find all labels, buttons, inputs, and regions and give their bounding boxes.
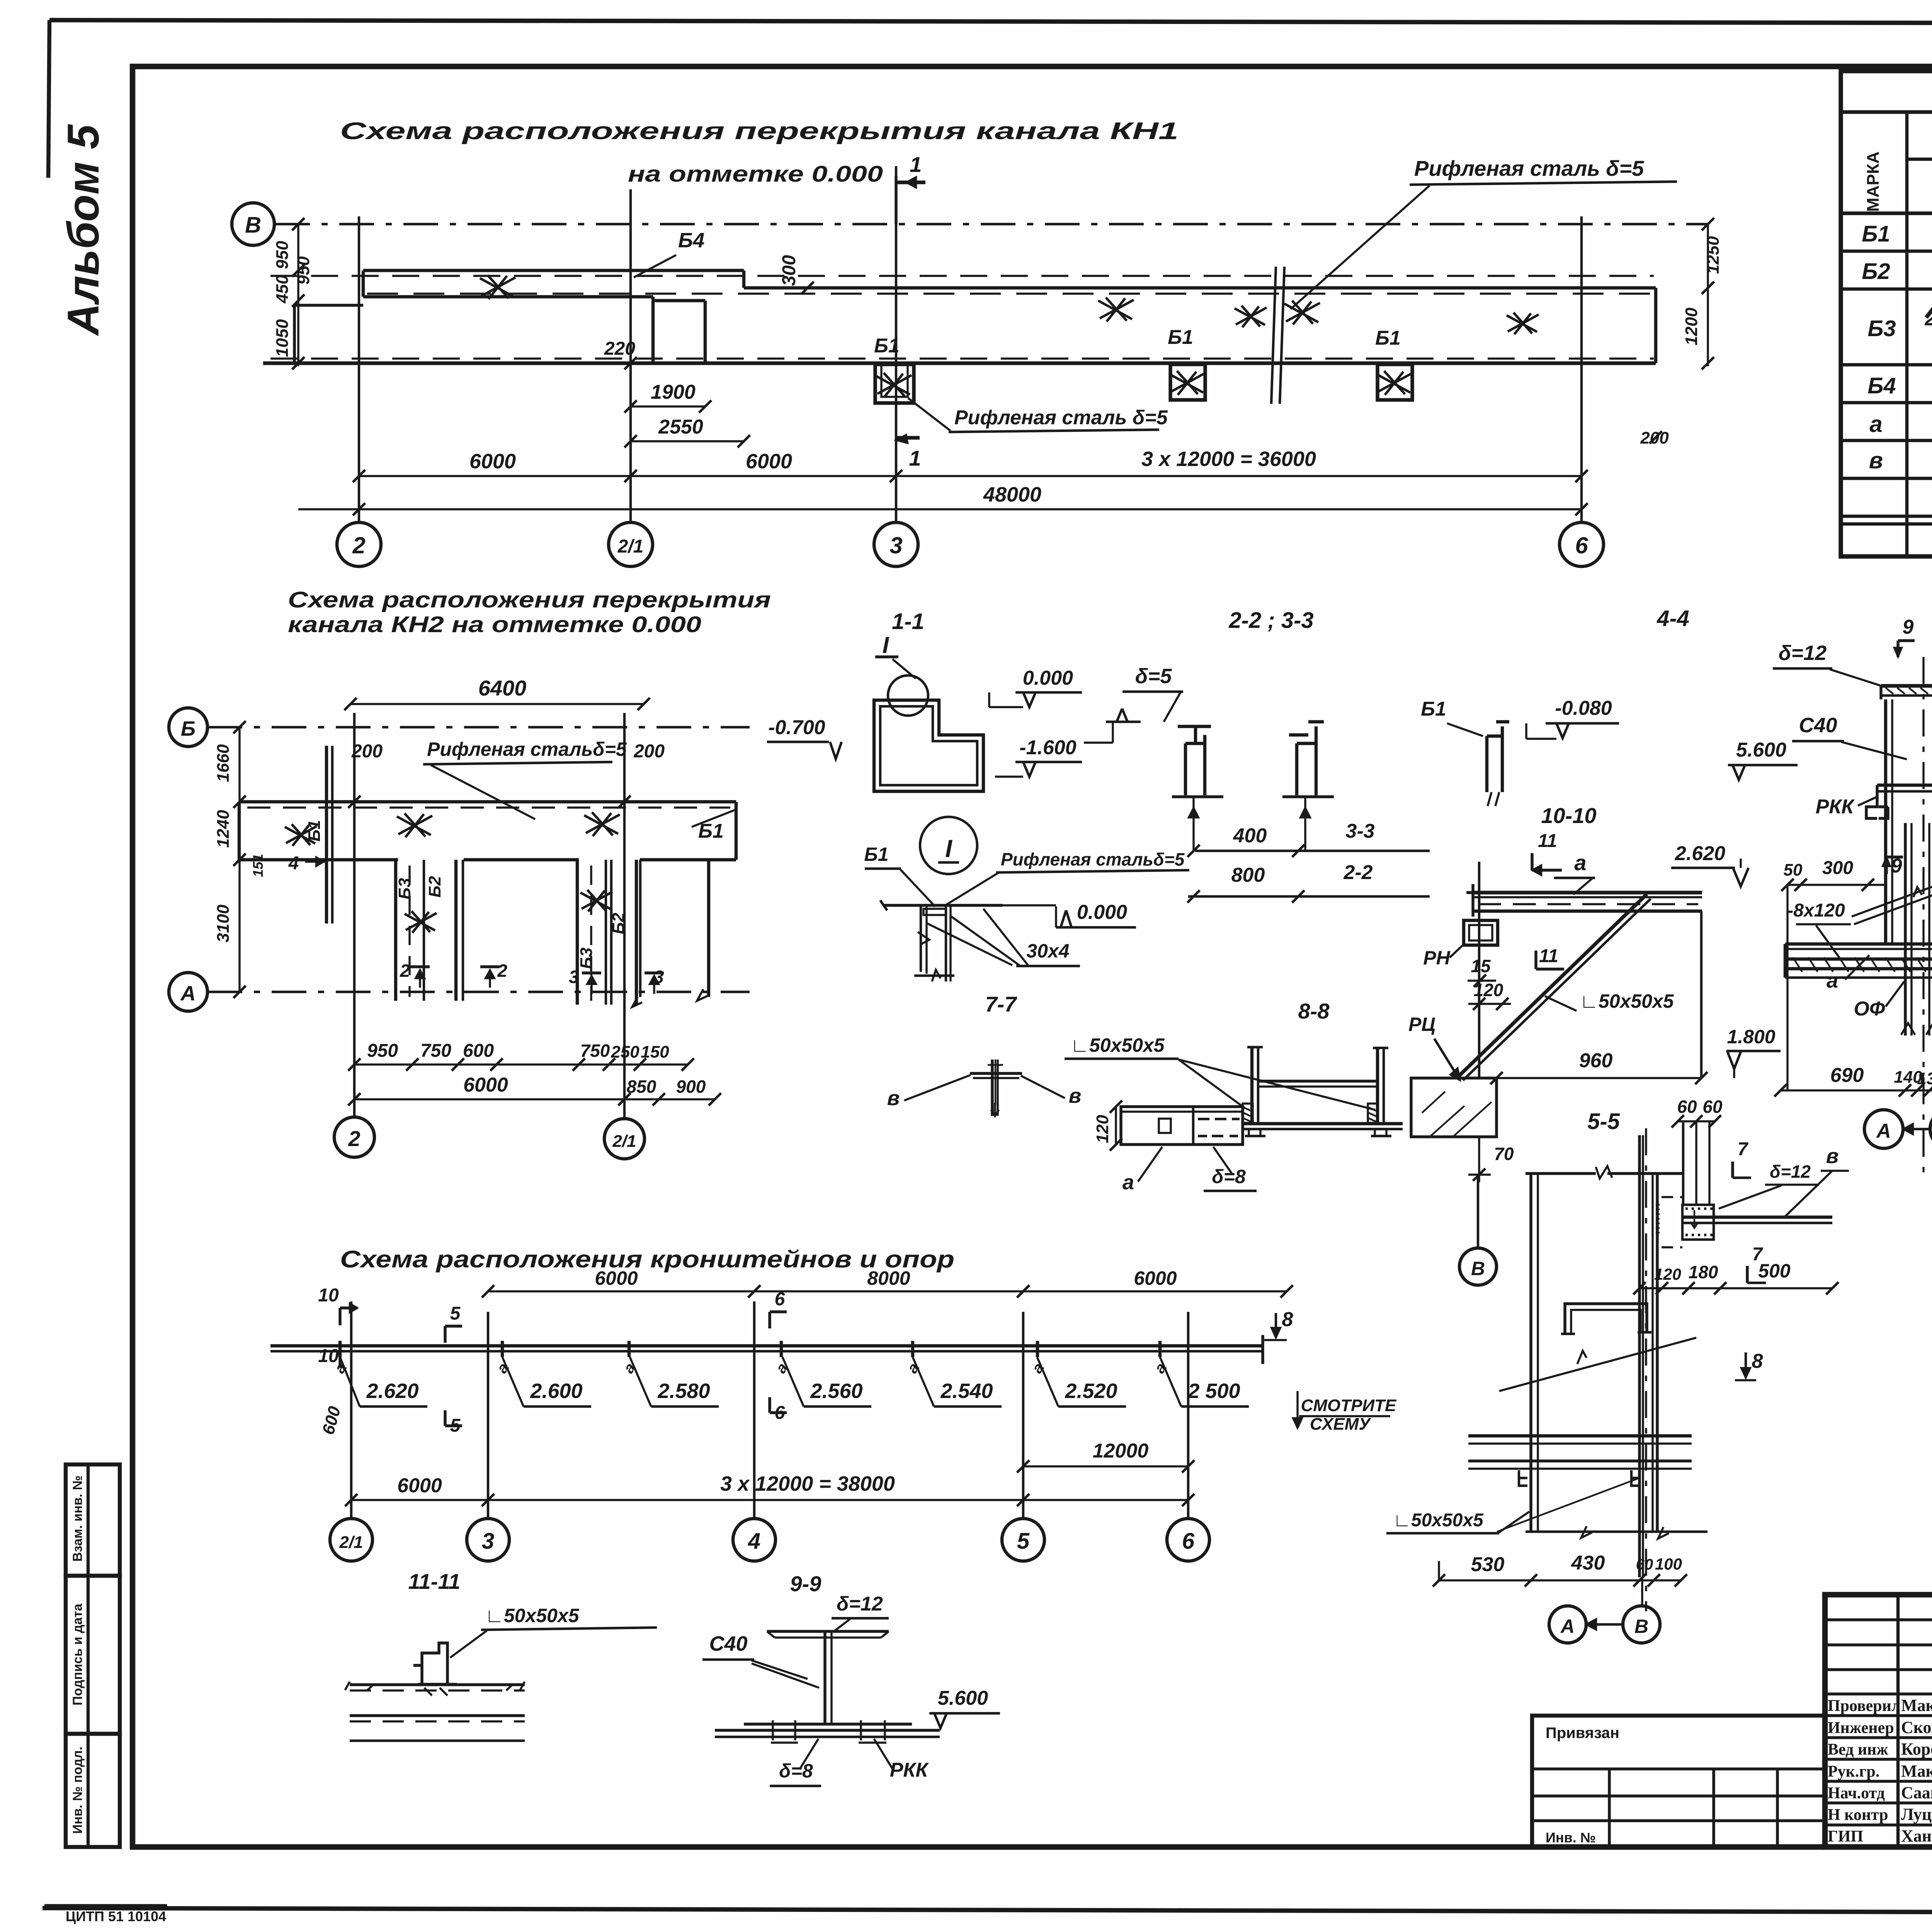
table header grid — [1841, 211, 1932, 215]
svg-text:8-8: 8-8 — [1298, 999, 1330, 1023]
svg-text:450: 450 — [273, 275, 292, 304]
section 8-8 joint blocks — [1243, 1104, 1253, 1123]
svg-text:2/1: 2/1 — [617, 536, 644, 557]
svg-text:3 х 12000 = 36000: 3 х 12000 = 36000 — [1141, 447, 1316, 471]
detail I bracket — [920, 905, 922, 972]
svg-text:ГИП: ГИП — [1828, 1828, 1863, 1845]
axis line 2/1 plan KH2 — [623, 713, 626, 1118]
svg-text:в: в — [1826, 1145, 1839, 1168]
svg-text:Б1: Б1 — [874, 335, 900, 357]
svg-text:2 500: 2 500 — [1187, 1379, 1240, 1403]
svg-text:а: а — [1122, 1171, 1134, 1194]
canal KH1 slab outline — [363, 269, 744, 272]
section 10-10 right edge vertical — [1700, 911, 1702, 1078]
section cut 1 bottom — [896, 436, 920, 439]
svg-text:8000: 8000 — [867, 1267, 910, 1289]
section 6-6 top slab — [1881, 684, 1932, 687]
svg-text:9-9: 9-9 — [790, 1571, 821, 1596]
axis circle 3 — [874, 522, 918, 566]
dims 60 60 section 5-5 — [1678, 1120, 1715, 1122]
svg-text:150: 150 — [641, 1043, 669, 1061]
axis line 3 vertical — [895, 166, 897, 522]
left dim column plan KH1 — [297, 224, 299, 366]
axis line 2/1 vertical — [629, 189, 632, 522]
svg-text:500: 500 — [1758, 1260, 1791, 1282]
svg-text:Инв. № подл.: Инв. № подл. — [70, 1747, 85, 1834]
axis circle 2/1 plan 3 — [330, 1519, 372, 1561]
axis circle 4 plan 3 — [733, 1519, 776, 1561]
svg-text:30х4: 30х4 — [1026, 940, 1069, 962]
dim 8000 top plan 3 — [754, 1290, 1023, 1292]
svg-text:Альбом 5: Альбом 5 — [59, 124, 108, 336]
svg-text:120: 120 — [1474, 980, 1503, 1000]
svg-text:2.540: 2.540 — [940, 1379, 993, 1403]
svg-text:5: 5 — [1017, 1529, 1030, 1554]
canal KH1 dashed edges — [270, 275, 1654, 277]
svg-text:2.580: 2.580 — [657, 1379, 710, 1403]
dim row 690 140 130 60 100 — [1781, 1089, 1932, 1091]
svg-text:Рифленая стальδ=5: Рифленая стальδ=5 — [427, 738, 627, 760]
svg-text:МАРКА: МАРКА — [1864, 151, 1883, 212]
svg-text:70: 70 — [1494, 1144, 1514, 1164]
axis circle В — [232, 203, 274, 245]
svg-text:3-3: 3-3 — [1345, 820, 1374, 842]
svg-text:6000: 6000 — [595, 1267, 638, 1289]
svg-text:6000: 6000 — [1134, 1267, 1177, 1289]
beam Б1 box 3 — [1378, 364, 1412, 400]
svg-text:200: 200 — [633, 741, 665, 762]
svg-text:Б1: Б1 — [1421, 698, 1446, 720]
dims 50 300 section 6-6 — [1787, 884, 1884, 886]
svg-text:Н контр: Н контр — [1828, 1806, 1888, 1824]
section 7-7 tee detail — [970, 1072, 1022, 1075]
svg-text:канала КН2 на отметке: канала КН2 на отметке 0.000 — [288, 612, 701, 637]
svg-text:690: 690 — [1830, 1064, 1864, 1087]
svg-text:120: 120 — [1093, 1115, 1112, 1143]
svg-text:1.800: 1.800 — [1727, 1026, 1775, 1048]
dim 6000b top plan 3 — [1023, 1290, 1287, 1292]
svg-text:Рук.гр.: Рук.гр. — [1828, 1763, 1879, 1781]
svg-text:В: В — [245, 213, 261, 238]
svg-text:6000: 6000 — [746, 450, 792, 473]
svg-text:СМОТРИТЕ: СМОТРИТЕ — [1301, 1396, 1397, 1415]
svg-text:Ханин: Ханин — [1901, 1827, 1932, 1845]
svg-text:8: 8 — [1752, 1350, 1763, 1372]
svg-text:2-2: 2-2 — [1343, 861, 1372, 884]
axis line 6 vertical — [1580, 216, 1583, 522]
svg-text:6000: 6000 — [469, 450, 516, 473]
svg-text:Нач.отд: Нач.отд — [1828, 1784, 1885, 1802]
slab KH2 outline — [239, 800, 736, 803]
svg-text:48000: 48000 — [983, 483, 1041, 506]
svg-text:250: 250 — [611, 1043, 639, 1061]
svg-text:11: 11 — [1538, 831, 1557, 851]
title block frame — [1825, 1595, 1932, 1847]
svg-text:СХЕМУ: СХЕМУ — [1310, 1415, 1372, 1434]
print code ЦИТП — [44, 1904, 167, 1907]
svg-text:а: а — [1869, 411, 1882, 437]
axis circle 5 plan 3 — [1002, 1519, 1044, 1561]
svg-text:4: 4 — [748, 1529, 760, 1554]
svg-text:а: а — [1574, 850, 1586, 875]
bracket РКК section 6-6 — [1877, 784, 1932, 787]
axis circle 3 plan 3 — [467, 1519, 509, 1561]
section 9-9 I-beam top flange — [767, 1630, 889, 1633]
svg-text:120: 120 — [1654, 1265, 1681, 1283]
section 5-5 bottom break — [1526, 1531, 1708, 1533]
channel detail 3-3 right — [1289, 722, 1324, 795]
paper left edge segment — [48, 20, 49, 178]
svg-text:10-10: 10-10 — [1541, 803, 1596, 828]
canal KH2 right channel wall 1 — [576, 860, 579, 1005]
svg-text:7-7: 7-7 — [985, 992, 1018, 1016]
axis circle 6 — [1560, 522, 1604, 566]
table title row — [1841, 110, 1932, 114]
svg-text:∟50х50х5: ∟50х50х5 — [485, 1605, 580, 1626]
svg-text:50: 50 — [1784, 861, 1803, 879]
svg-text:6: 6 — [1575, 532, 1588, 558]
dim row 6000 850 900 — [354, 1098, 715, 1100]
svg-text:6000: 6000 — [397, 1475, 442, 1497]
svg-text:δ=12: δ=12 — [837, 1593, 883, 1615]
axis line А plan KH2 — [207, 991, 750, 993]
svg-text:Б3: Б3 — [1867, 316, 1896, 341]
svg-text:Макарова: Макарова — [1901, 1762, 1932, 1781]
section 1-1 wall plan — [874, 700, 983, 791]
svg-text:РКК: РКК — [1816, 796, 1855, 818]
svg-text:на отметке 0.000: на отметке 0.000 — [628, 162, 883, 187]
axis circle 2/1 plan KH2 — [604, 1119, 645, 1159]
svg-text:РКК: РКК — [890, 1759, 929, 1781]
svg-text:6: 6 — [1182, 1529, 1195, 1554]
svg-text:Схема расположения крон: Схема расположения кронштейнов и опор — [340, 1246, 954, 1273]
svg-text:5: 5 — [450, 1303, 461, 1324]
stamp box Взам. инв. № — [66, 1464, 120, 1576]
svg-text:δ=12: δ=12 — [1770, 1162, 1811, 1182]
axis circle В section 10-10 — [1477, 1175, 1479, 1248]
svg-text:11-11: 11-11 — [408, 1569, 461, 1594]
svg-text:2.520: 2.520 — [1065, 1379, 1117, 1403]
svg-text:2.560: 2.560 — [810, 1379, 862, 1403]
dims 120 180 500 section 5-5 — [1639, 1287, 1832, 1289]
axis line Б — [207, 726, 750, 728]
elevation mark up section 2-2 — [1106, 721, 1141, 723]
svg-text:900: 900 — [676, 1077, 706, 1097]
svg-text:2/1: 2/1 — [339, 1533, 363, 1552]
svg-text:15: 15 — [1471, 956, 1491, 976]
svg-text:РЦ: РЦ — [1408, 1014, 1435, 1035]
dim row 48000 — [298, 508, 1582, 510]
svg-text:1-1: 1-1 — [892, 609, 924, 634]
section 5-5 bracket beam — [1682, 1216, 1832, 1219]
canal KH2 left channel wall 1 — [394, 860, 397, 1001]
svg-text:151: 151 — [250, 854, 266, 877]
section 5-5 lower beams — [1468, 1434, 1692, 1437]
svg-text:Рифленая сталь δ=5: Рифленая сталь δ=5 — [1414, 156, 1644, 180]
svg-text:200: 200 — [351, 741, 383, 762]
svg-text:100: 100 — [1655, 1555, 1682, 1573]
section 10-10 top beam — [1474, 891, 1702, 894]
svg-text:I: I — [945, 835, 952, 862]
svg-text:3: 3 — [889, 532, 902, 558]
svg-text:7: 7 — [1738, 1139, 1749, 1160]
svg-text:5.600: 5.600 — [1736, 739, 1786, 761]
svg-text:В: В — [1471, 1258, 1485, 1279]
axis circle Б — [169, 708, 207, 747]
svg-text:δ=8: δ=8 — [779, 1760, 813, 1782]
svg-text:Б2: Б2 — [425, 876, 444, 898]
svg-text:С40: С40 — [1799, 714, 1837, 737]
section 11-11 beam lines — [350, 1683, 525, 1686]
svg-text:1: 1 — [909, 446, 921, 470]
svg-text:Макарова: Макарова — [1901, 1696, 1932, 1715]
svg-text:5-5: 5-5 — [1587, 1109, 1620, 1134]
svg-text:1050: 1050 — [273, 319, 292, 357]
channel detail 2-2 left — [1178, 726, 1211, 795]
svg-text:-0.700: -0.700 — [768, 716, 825, 739]
section 8-8 rail — [1258, 1080, 1378, 1082]
stamp box Подпись и дата — [66, 1576, 120, 1734]
svg-text:400: 400 — [1233, 825, 1267, 847]
svg-text:2.620: 2.620 — [366, 1379, 418, 1403]
svg-text:6: 6 — [775, 1289, 785, 1310]
dim row plan 3 bottom — [351, 1499, 1188, 1501]
table row lines — [1841, 250, 1932, 253]
svg-text:Луценко: Луценко — [1901, 1805, 1932, 1824]
svg-text:Инженер: Инженер — [1828, 1719, 1894, 1737]
svg-text:Б1: Б1 — [864, 844, 888, 865]
section 6-6 column — [1884, 699, 1887, 943]
svg-text:в: в — [887, 1087, 900, 1110]
svg-text:6400: 6400 — [478, 676, 527, 700]
svg-text:А: А — [1560, 1616, 1575, 1637]
beam Б1 element vertical left — [325, 746, 328, 923]
svg-text:300: 300 — [1822, 858, 1853, 878]
svg-text:0.000: 0.000 — [1023, 667, 1073, 689]
svg-text:2.620: 2.620 — [1675, 842, 1725, 865]
paper top edge — [49, 20, 1932, 24]
svg-text:2: 2 — [497, 961, 507, 981]
svg-text:ЦИТП 51 10104: ЦИТП 51 10104 — [66, 1908, 166, 1924]
table 400 800 under section — [1195, 850, 1430, 852]
svg-text:1250: 1250 — [1704, 236, 1723, 274]
svg-text:60: 60 — [1636, 1556, 1653, 1573]
svg-text:Рифленая стальδ=5: Рифленая стальδ=5 — [1001, 849, 1185, 869]
svg-text:Б4: Б4 — [678, 229, 704, 252]
svg-text:0.000: 0.000 — [1077, 901, 1127, 923]
dim row 950 750 600 / 750 250 150 — [354, 1063, 688, 1065]
svg-text:А: А — [1876, 1120, 1891, 1142]
axis circles А В section 5-5 — [1641, 1577, 1643, 1607]
svg-text:2: 2 — [352, 532, 365, 558]
section 5-5 column — [1638, 1135, 1641, 1577]
svg-text:Рифленая сталь δ=5: Рифленая сталь δ=5 — [954, 406, 1168, 429]
svg-text:3 х 12000 = 38000: 3 х 12000 = 38000 — [720, 1472, 895, 1495]
support ticks a plan 3 — [338, 1341, 342, 1357]
svg-text:300: 300 — [779, 255, 799, 286]
svg-text:I: I — [883, 632, 889, 658]
axis circle 2/1 — [609, 522, 653, 566]
svg-text:800: 800 — [1231, 864, 1265, 886]
svg-text:Схема расположения перекр: Схема расположения перекрытия — [288, 587, 771, 612]
svg-text:430: 430 — [1571, 1552, 1605, 1574]
svg-text:Б1: Б1 — [1168, 326, 1193, 349]
axis circle 2 — [337, 522, 381, 566]
svg-text:δ=12: δ=12 — [1779, 641, 1827, 665]
svg-text:2: 2 — [348, 1126, 360, 1151]
svg-text:180: 180 — [1689, 1262, 1718, 1282]
section 8-8 left box — [1121, 1107, 1243, 1145]
hatch marks plan KH1 — [480, 275, 515, 299]
paper bottom edge — [43, 1908, 1932, 1913]
canal KH2 right panel — [639, 860, 641, 997]
svg-text:750: 750 — [580, 1041, 610, 1061]
svg-text:Вед инж: Вед инж — [1828, 1741, 1888, 1759]
section 5-5 upper thin diagonal — [1499, 1338, 1696, 1391]
svg-text:12000: 12000 — [1093, 1440, 1149, 1462]
detail I circle large — [920, 817, 977, 874]
svg-text:Б3: Б3 — [577, 947, 596, 969]
svg-text:Б1: Б1 — [1862, 221, 1890, 247]
dim 2550 — [631, 440, 744, 442]
svg-text:С40: С40 — [709, 1632, 747, 1655]
svg-text:1: 1 — [910, 152, 922, 177]
svg-text:-0.080: -0.080 — [1555, 697, 1612, 719]
section 9-9 bottom flange and plate — [744, 1723, 912, 1725]
svg-text:220: 220 — [604, 338, 635, 359]
detail I slab line — [883, 904, 1003, 906]
left dim column plan KH2 — [238, 727, 240, 992]
svg-text:Сковпень: Сковпень — [1901, 1718, 1932, 1737]
svg-text:Инв. №: Инв. № — [1546, 1830, 1596, 1845]
svg-text:А: А — [180, 982, 196, 1005]
svg-text:Коротенко: Коротенко — [1901, 1740, 1932, 1759]
svg-text:Б1: Б1 — [1375, 327, 1401, 349]
wall line plan 3 — [270, 1344, 1263, 1347]
svg-text:-8х120: -8х120 — [1787, 900, 1845, 921]
svg-text:-1.600: -1.600 — [1019, 736, 1077, 759]
svg-text:Подпись и дата: Подпись и дата — [70, 1603, 85, 1706]
svg-text:8: 8 — [1282, 1308, 1293, 1331]
svg-text:Взам. инв. №: Взам. инв. № — [70, 1475, 85, 1561]
svg-text:Б: Б — [181, 717, 196, 740]
svg-text:Проверил: Проверил — [1828, 1697, 1900, 1715]
dim 1900 — [631, 405, 705, 407]
svg-text:130: 130 — [1917, 1069, 1932, 1088]
svg-text:РН: РН — [1423, 947, 1450, 969]
privyazan box — [1532, 1716, 1825, 1847]
hatch marks plan KH2 — [397, 813, 432, 837]
bracket РН — [1464, 920, 1498, 945]
dims 530 430 60 100 section 5-5 — [1439, 1579, 1681, 1581]
dim 6000 top plan 3 — [488, 1290, 754, 1292]
svg-text:δ=5: δ=5 — [1135, 665, 1172, 688]
svg-text:Б4: Б4 — [1867, 373, 1896, 398]
svg-text:2: 2 — [400, 961, 410, 981]
long diagonal line section 6-6 — [1852, 859, 1932, 917]
svg-text:∟50х50х5: ∟50х50х5 — [1580, 990, 1674, 1012]
svg-text:2: 2 — [1924, 308, 1932, 330]
dim row 6000 6000 36000 — [359, 475, 1582, 477]
svg-text:4: 4 — [288, 853, 299, 874]
svg-text:950: 950 — [294, 256, 313, 285]
canal KH2 right channel wall 2 — [610, 860, 612, 1005]
svg-text:4-4: 4-4 — [1656, 606, 1689, 631]
svg-text:1240: 1240 — [214, 810, 233, 848]
dim 960 — [1497, 1077, 1701, 1079]
dim 12000 plan 3 — [1023, 1465, 1188, 1467]
dim 6400 — [350, 703, 644, 705]
axis circle 2 plan KH2 — [334, 1117, 374, 1157]
svg-text:2.600: 2.600 — [530, 1379, 582, 1403]
svg-text:750: 750 — [420, 1041, 451, 1061]
right dim column plan KH1 — [1707, 224, 1709, 366]
concrete footing block — [1411, 1078, 1497, 1137]
svg-text:Схема расположения перек: Схема расположения перекрытия канала КН1 — [340, 118, 1179, 145]
section 9-9 web — [823, 1631, 826, 1724]
diagonal brace 10-10 — [1458, 894, 1647, 1077]
channel detail 4-4 — [1487, 722, 1509, 792]
canal KH2 left channel wall 2 — [454, 860, 457, 1001]
svg-text:2550: 2550 — [658, 416, 703, 438]
stamp box Инв. № подл. — [66, 1734, 120, 1847]
svg-text:1900: 1900 — [651, 381, 696, 403]
svg-text:2-2 ; 3-3: 2-2 ; 3-3 — [1228, 608, 1313, 633]
svg-text:530: 530 — [1471, 1553, 1505, 1576]
svg-text:ОФ: ОФ — [1854, 998, 1885, 1020]
svg-text:1660: 1660 — [214, 744, 233, 782]
axis line 2 vertical — [358, 216, 360, 522]
section cut 1 top — [895, 176, 897, 224]
svg-text:9: 9 — [1903, 616, 1914, 638]
svg-text:Б2: Б2 — [1862, 259, 1890, 284]
axis line В — [275, 223, 1708, 225]
svg-text:960: 960 — [1579, 1049, 1613, 1072]
svg-text:600: 600 — [463, 1041, 494, 1061]
break line plan KH1 — [1271, 267, 1276, 404]
svg-text:∟50х50х5: ∟50х50х5 — [1393, 1510, 1484, 1531]
section 5-5 left wall — [1529, 1173, 1532, 1532]
svg-text:1200: 1200 — [1682, 308, 1701, 345]
svg-text:6000: 6000 — [463, 1074, 508, 1096]
axis circle 6 plan 3 — [1167, 1519, 1209, 1561]
detail circle I — [888, 675, 928, 716]
svg-text:60: 60 — [1677, 1097, 1697, 1117]
svg-text:950: 950 — [273, 241, 292, 269]
svg-text:950: 950 — [367, 1041, 398, 1061]
svg-text:10: 10 — [318, 1285, 339, 1306]
svg-text:60: 60 — [1702, 1097, 1723, 1117]
svg-text:Привязан: Привязан — [1546, 1725, 1619, 1742]
svg-text:5.600: 5.600 — [938, 1687, 988, 1709]
svg-text:2/1: 2/1 — [612, 1132, 636, 1151]
table ВЕДОМОСТЬ ЭЛЕМЕНТОВ frame — [1841, 71, 1932, 556]
bracket shelf a section 6-6 — [1785, 942, 1932, 946]
section 10-10 left column line — [1478, 862, 1480, 1078]
beam Б1 box 1 — [875, 364, 914, 403]
svg-text:3: 3 — [569, 967, 579, 987]
axis verticals plan 3 — [350, 1301, 352, 1518]
canal KH1 step lines 1900-2550 — [651, 297, 655, 363]
svg-text:Б3: Б3 — [395, 878, 414, 900]
svg-text:в: в — [1869, 447, 1883, 473]
svg-text:Саакьянц: Саакьянц — [1901, 1783, 1932, 1802]
axis circle А plan KH2 — [169, 973, 207, 1011]
svg-text:3: 3 — [482, 1529, 494, 1554]
svg-text:а: а — [1827, 969, 1838, 992]
svg-text:3100: 3100 — [214, 905, 233, 942]
svg-text:Б2: Б2 — [609, 913, 628, 934]
